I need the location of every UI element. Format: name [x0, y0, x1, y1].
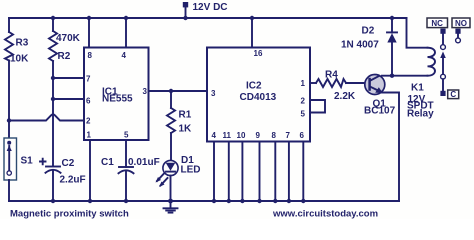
svg-text:C: C	[450, 90, 456, 99]
svg-text:www.circuitstoday.com: www.circuitstoday.com	[272, 209, 378, 220]
svg-text:R1: R1	[179, 110, 192, 121]
svg-text:1N 4007: 1N 4007	[341, 40, 379, 51]
svg-text:NO: NO	[455, 19, 467, 28]
wire collector line	[382, 75, 428, 77]
svg-text:10: 10	[237, 131, 246, 140]
svg-text:2.2K: 2.2K	[334, 91, 356, 102]
wire rail corner to coil	[407, 18, 428, 48]
wire R4 to base	[346, 82, 371, 84]
wire IC2 bottom pin 7	[288, 142, 290, 202]
wire bottom rail	[9, 200, 399, 202]
svg-text:12V DC: 12V DC	[193, 2, 228, 13]
svg-text:Magnetic proximity switch: Magnetic proximity switch	[10, 209, 129, 220]
op-amp IC1 box	[84, 48, 149, 141]
svg-text:2: 2	[301, 97, 306, 106]
wire R1 to LED	[170, 133, 172, 161]
wire pin4 to rail	[125, 18, 127, 48]
svg-text:C2: C2	[62, 158, 75, 169]
resistor R2 branch	[51, 16, 55, 20]
svg-text:1K: 1K	[179, 124, 193, 135]
wire left rail upper	[8, 18, 10, 32]
svg-text:8: 8	[88, 51, 93, 60]
svg-text:9: 9	[256, 131, 261, 140]
relay coil K1	[407, 48, 435, 120]
svg-text:10K: 10K	[10, 54, 29, 65]
svg-text:4: 4	[122, 51, 127, 60]
wire left rail lower	[8, 180, 10, 201]
IC2 CD4013 box	[207, 48, 310, 142]
svg-text:3: 3	[211, 89, 216, 98]
svg-text:R4: R4	[325, 70, 338, 81]
svg-text:K1: K1	[411, 83, 424, 94]
svg-text:7: 7	[286, 131, 291, 140]
svg-text:1: 1	[87, 131, 92, 140]
wire pin1 down	[89, 140, 91, 201]
svg-text:1: 1	[301, 79, 306, 88]
wire pin1 to R4	[310, 82, 316, 84]
wire IC2 bottom pin 10	[241, 142, 243, 202]
svg-text:NC: NC	[431, 19, 443, 28]
svg-text:8: 8	[272, 131, 277, 140]
power terminal 12V DC	[183, 2, 228, 20]
wire pin5 down to C1	[125, 140, 127, 167]
wire IC2 bottom pin 9	[259, 142, 261, 202]
capacitor C2	[40, 158, 86, 201]
node R2/pin7	[51, 76, 55, 80]
wire IC2 bottom pin 6	[302, 142, 304, 202]
svg-text:6: 6	[300, 131, 305, 140]
wire pin2 with hop	[9, 114, 84, 120]
svg-text:470K: 470K	[56, 33, 81, 44]
svg-text:6: 6	[86, 97, 91, 106]
node left-pin2 junction	[7, 118, 11, 122]
svg-text:S1: S1	[21, 156, 34, 167]
svg-text:2.2uF: 2.2uF	[60, 175, 86, 186]
node collector/D2	[390, 74, 394, 78]
svg-text:BC107: BC107	[364, 106, 396, 117]
wire pin2-pin5 loop	[310, 100, 325, 113]
wire IC2 bottom pin 8	[274, 142, 276, 202]
wire pin6	[53, 98, 84, 100]
resistor R2	[49, 31, 57, 61]
wire LED to rail	[170, 176, 172, 201]
wire R2 bottom to C2	[52, 61, 54, 166]
transistor Q1	[364, 75, 396, 117]
svg-text:Relay: Relay	[407, 109, 434, 120]
svg-text:3: 3	[143, 87, 148, 96]
svg-text:D2: D2	[362, 26, 375, 37]
svg-text:7: 7	[86, 75, 91, 84]
svg-text:CD4013: CD4013	[240, 92, 277, 103]
svg-text:11: 11	[223, 131, 232, 140]
diode D2	[341, 18, 397, 76]
capacitor C1	[101, 157, 160, 201]
resistor R4	[316, 79, 346, 87]
switch S1	[4, 138, 33, 180]
wire emitter down	[382, 93, 399, 202]
resistor R3	[5, 32, 13, 61]
resistor R1	[167, 108, 175, 133]
wire pin3 line	[149, 90, 208, 92]
wire pin16 to rail	[251, 18, 253, 48]
wire top rail	[9, 17, 407, 19]
svg-text:R2: R2	[58, 51, 71, 62]
svg-text:5: 5	[124, 131, 129, 140]
svg-text:NE555: NE555	[102, 94, 133, 105]
relay contact NO terminal	[452, 18, 470, 43]
node pin3/R1	[169, 89, 173, 93]
svg-text:R3: R3	[16, 38, 29, 49]
svg-text:0.01uF: 0.01uF	[128, 157, 160, 168]
svg-text:16: 16	[254, 49, 263, 58]
svg-text:C1: C1	[101, 157, 114, 168]
svg-text:LED: LED	[181, 165, 201, 176]
relay contact NC terminal	[427, 18, 448, 49]
ground	[164, 201, 178, 213]
wire pin8 to rail	[88, 18, 90, 48]
svg-text:5: 5	[301, 110, 306, 119]
wire IC2 bottom pin 4	[213, 142, 215, 202]
wire pin7	[53, 77, 84, 79]
wire left rail middle	[8, 61, 10, 139]
wire R1 top	[170, 91, 172, 108]
svg-text:2: 2	[86, 117, 91, 126]
wire IC2 bottom pin 11	[228, 142, 230, 202]
node C2 bottom	[51, 199, 55, 203]
node R2/pin6	[51, 97, 55, 101]
LED D1	[156, 155, 201, 187]
relay common C terminal	[448, 90, 459, 99]
relay armature	[440, 52, 446, 97]
svg-text:4: 4	[212, 131, 217, 140]
svg-text:IC2: IC2	[246, 81, 262, 92]
